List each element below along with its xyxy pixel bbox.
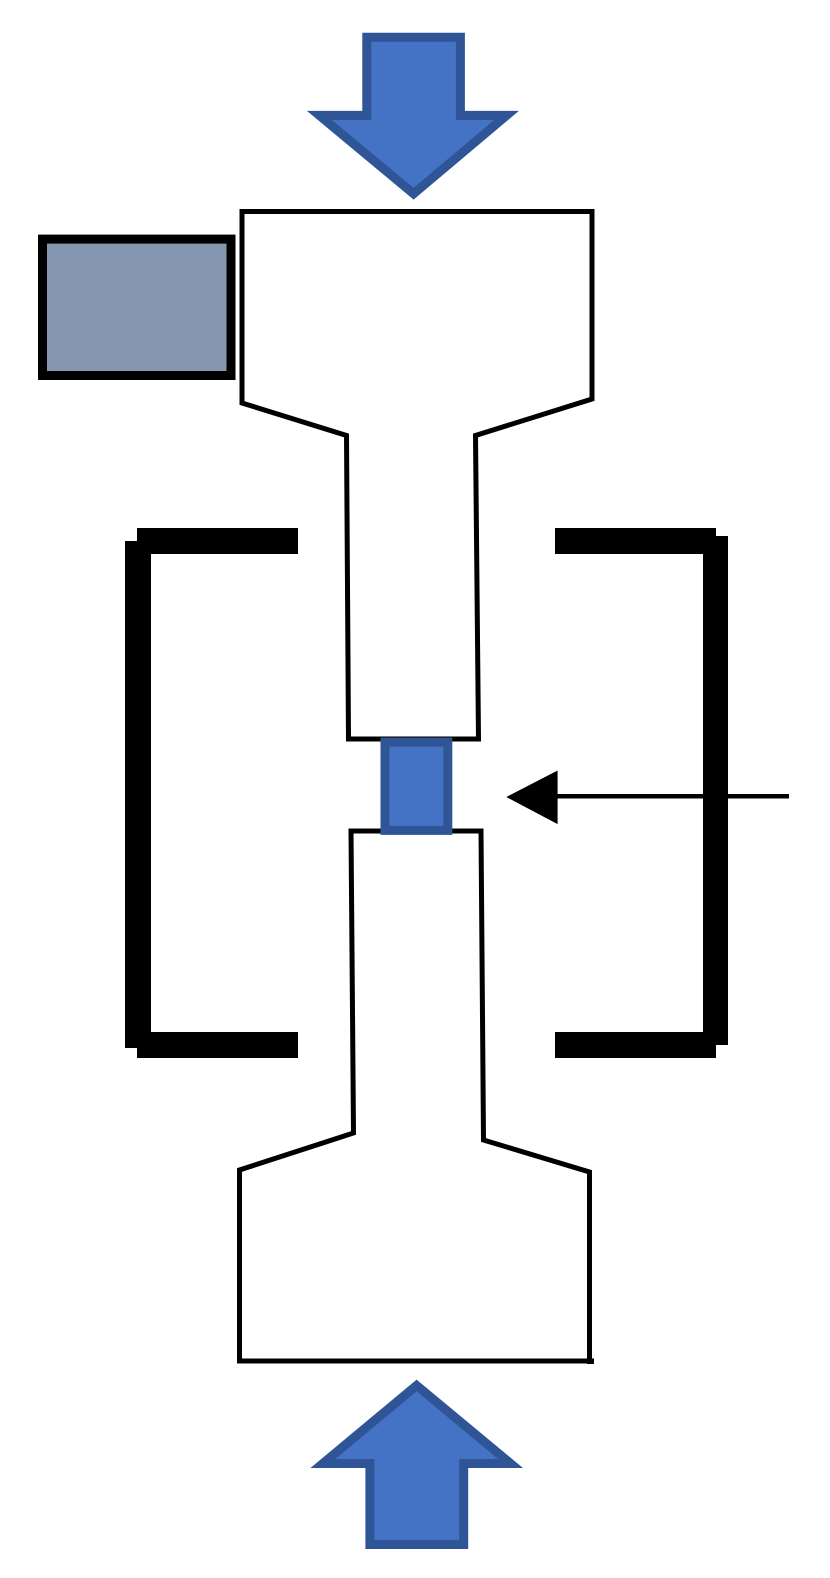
right furnace bracket: vertical bar: [703, 536, 728, 1045]
lower anvil / punch outline: [240, 831, 590, 1361]
left furnace bracket: top horizontal bar: [137, 528, 298, 554]
right furnace bracket: bottom horizontal bar: [555, 1032, 716, 1058]
top force block arrow (down), light blue fill: [332, 42, 494, 188]
bottom force block arrow (up), light blue fill: [335, 1391, 498, 1540]
left furnace bracket: vertical bar: [125, 541, 151, 1048]
left furnace bracket: bottom horizontal bar: [137, 1032, 298, 1058]
blue specimen between anvils: [385, 742, 448, 830]
annotation arrow head: [506, 771, 557, 825]
gray load-cell box at top left: [43, 239, 232, 375]
upper anvil / punch outline: [242, 212, 592, 740]
top force block arrow (down), outer dark border: [307, 33, 519, 200]
annotation arrow shaft (pointing at specimen): [545, 794, 789, 799]
right furnace bracket: top horizontal bar: [555, 528, 716, 554]
lower anvil bottom edge right overshoot: [587, 1359, 594, 1365]
bottom force block arrow (up), outer dark border: [310, 1380, 523, 1549]
